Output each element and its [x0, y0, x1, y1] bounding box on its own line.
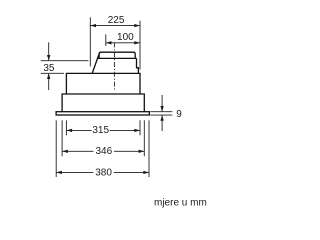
- centerline (dash-dot): [113, 42, 115, 89]
- hood flange plate (bottom frame, 380 wide, 9 thick): [56, 112, 149, 115]
- dimension 380: dimension line: [56, 171, 149, 173]
- dimension 225: dimension line: [90, 25, 140, 27]
- dimension 9: arrow lines (outside): [161, 95, 163, 131]
- bottom extension lines left (315 / 346 / 380): [56, 120, 66, 177]
- duct collar (top spigot): [99, 52, 135, 58]
- dimension 35: arrow lines (outside): [48, 42, 50, 90]
- dimension 100: dimension line: [106, 42, 140, 44]
- duct transition left slant: [92, 53, 99, 74]
- dimension 225: extension lines: [90, 17, 140, 69]
- dimension 315: dimension line: [66, 129, 140, 131]
- duct right stepped edge: [137, 58, 139, 73]
- dimension 100: extension line: [105, 34, 107, 46]
- svg-text:35: 35: [43, 63, 55, 74]
- dimension 100: arrowheads: [106, 41, 140, 44]
- svg-text:315: 315: [92, 125, 109, 136]
- dimension 9: extension lines: [150, 112, 172, 115]
- dimension 225: arrowheads: [90, 24, 139, 27]
- bottom extension lines right (315 / 346 / 380): [140, 120, 149, 177]
- svg-text:346: 346: [95, 146, 112, 157]
- collar shoulder line: [98, 57, 137, 59]
- hood body outline (lower box, step, upper box, top face): [62, 73, 144, 111]
- dimension 35: arrowheads: [47, 55, 50, 79]
- svg-text:380: 380: [95, 167, 112, 178]
- svg-text:225: 225: [108, 15, 125, 26]
- dimension 346: dimension line: [62, 150, 144, 152]
- dimension 380: arrowheads: [56, 171, 149, 174]
- dimension 9: arrowheads: [160, 106, 163, 121]
- svg-text:100: 100: [117, 32, 134, 43]
- svg-text:mjere u mm: mjere u mm: [154, 198, 207, 209]
- dimension 315: arrowheads: [67, 129, 140, 132]
- dimension 346: arrowheads: [62, 150, 144, 153]
- dimension 35: extension lines: [41, 61, 89, 74]
- svg-text:9: 9: [176, 109, 182, 120]
